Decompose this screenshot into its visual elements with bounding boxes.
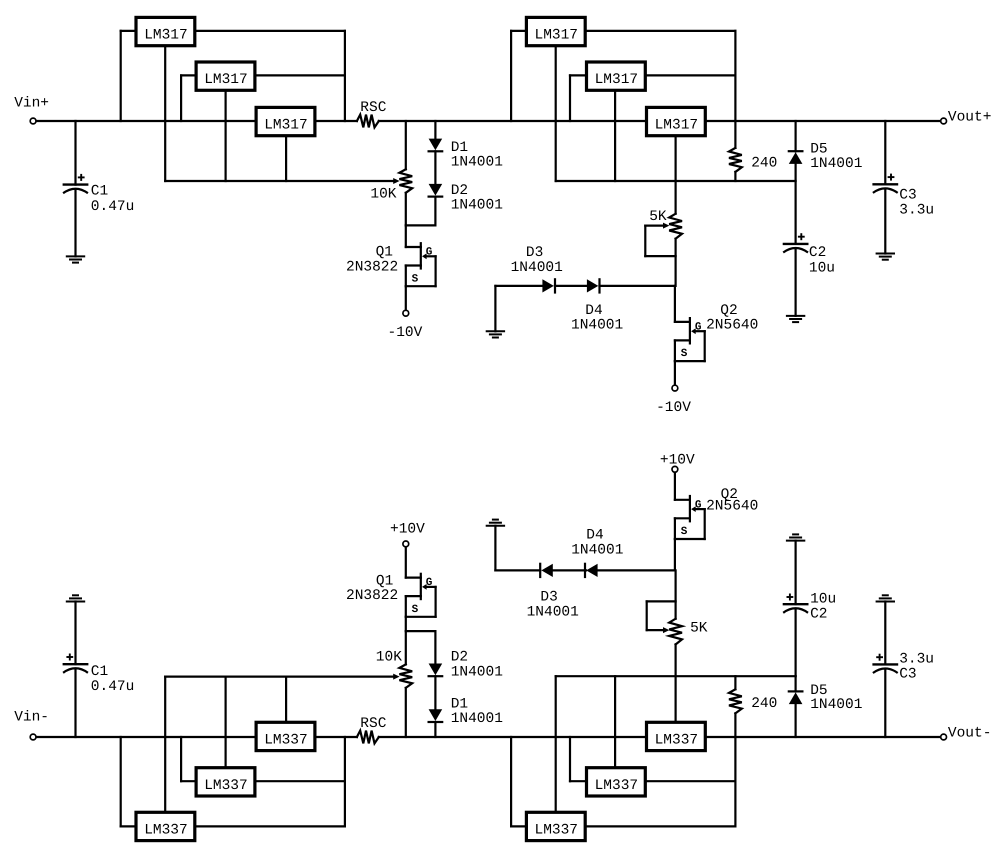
svg-text:D3: D3 bbox=[540, 589, 557, 605]
wire U4 output pin bbox=[586, 31, 735, 121]
wire U10 input pin (left) bbox=[511, 737, 525, 826]
svg-text:1N4001: 1N4001 bbox=[527, 604, 579, 620]
svg-text:1N4001: 1N4001 bbox=[451, 664, 503, 680]
regulator U9 LM337 bbox=[256, 722, 315, 750]
regulator U7 LM337 bbox=[136, 812, 195, 840]
svg-text:LM337: LM337 bbox=[264, 732, 308, 748]
svg-text:C3: C3 bbox=[899, 188, 916, 204]
diode D5 (top) bbox=[789, 151, 803, 164]
wire U7 adj pin bbox=[164, 677, 166, 812]
regulator U1 LM317 bbox=[136, 17, 195, 45]
label Q2 (top) bbox=[706, 303, 758, 333]
svg-text:S: S bbox=[412, 604, 419, 616]
wire D3 to D4 (bottom) bbox=[553, 569, 586, 571]
svg-text:LM337: LM337 bbox=[535, 822, 579, 838]
ground (C2 top) bbox=[786, 316, 805, 322]
wire D4 to Q2 junction bbox=[600, 285, 675, 287]
wire U12 adj pin (to 5K) bbox=[674, 644, 676, 721]
svg-text:C2: C2 bbox=[809, 245, 826, 261]
ground (C2 bottom) bbox=[786, 534, 805, 540]
svg-text:1N4001: 1N4001 bbox=[810, 697, 862, 713]
node Vin+ terminal bbox=[30, 118, 36, 124]
label C3 (bottom) bbox=[899, 651, 934, 682]
svg-text:1N4001: 1N4001 bbox=[451, 155, 503, 171]
node Vin- terminal bbox=[30, 734, 36, 740]
ground (C1 top) bbox=[66, 256, 85, 262]
wire ground to D3 bbox=[495, 286, 542, 331]
ground (D3 bottom) bbox=[486, 520, 505, 526]
label D5 (top) bbox=[810, 141, 862, 172]
wire bus to 240 (bottom) bbox=[734, 676, 736, 689]
wire 240 to ADJ bus bbox=[734, 172, 736, 181]
wire U1 adj pin bbox=[164, 47, 166, 181]
svg-text:LM317: LM317 bbox=[144, 28, 188, 44]
wire D5 to bus / C2 bbox=[794, 164, 796, 244]
svg-text:D2: D2 bbox=[451, 649, 468, 665]
wire D1 to Vin- rail bbox=[434, 722, 436, 737]
resistor 240 (top) bbox=[729, 148, 742, 172]
node -10V terminal (Q1 top) bbox=[403, 310, 409, 316]
wire U10 adj pin bbox=[555, 676, 557, 811]
svg-text:1N4001: 1N4001 bbox=[571, 543, 623, 559]
label Q1 (bottom) bbox=[346, 574, 398, 604]
diode D4 (top) bbox=[587, 279, 600, 292]
svg-text:Vin+: Vin+ bbox=[14, 95, 49, 111]
regulator U12 LM337 bbox=[647, 722, 706, 750]
svg-text:1N4001: 1N4001 bbox=[451, 197, 503, 213]
regulator U4 LM317 bbox=[526, 17, 585, 45]
wire C3 to ground bbox=[884, 190, 886, 254]
potentiometer 5K (top) bbox=[669, 214, 682, 239]
wire U1 output pin bbox=[196, 31, 345, 121]
wire ground to C2 (bottom) bbox=[794, 541, 796, 605]
svg-text:D2: D2 bbox=[451, 183, 468, 199]
svg-text:10K: 10K bbox=[376, 649, 402, 665]
label D3 (bottom) bbox=[527, 589, 579, 620]
wire U8 output pin bbox=[256, 780, 345, 782]
transistor Q1 2N3822 (bottom) bbox=[406, 547, 436, 631]
wire 10K to Q1 junction bbox=[405, 193, 407, 226]
regulator U3 LM317 bbox=[256, 107, 315, 135]
wire Vin- rail (terminal to RSC) bbox=[37, 736, 357, 738]
wire rail to 10K bbox=[405, 121, 407, 169]
label D5 (bottom) bbox=[810, 683, 862, 713]
svg-text:D1: D1 bbox=[451, 140, 468, 156]
label RSC (bottom) bbox=[360, 716, 386, 732]
svg-text:LM337: LM337 bbox=[655, 732, 699, 748]
label Vout- bbox=[948, 726, 992, 742]
svg-text:LM317: LM317 bbox=[264, 117, 308, 133]
wire C1 to Vin- rail bbox=[74, 670, 76, 738]
label 5K (bottom) bbox=[690, 621, 708, 637]
svg-text:2N3822: 2N3822 bbox=[346, 588, 398, 604]
wire U5 input pin (left) bbox=[570, 75, 585, 121]
label C1 (top) bbox=[91, 184, 135, 215]
svg-text:C2: C2 bbox=[810, 607, 827, 623]
diode D1 (top) bbox=[429, 139, 443, 152]
ground (C1 bottom) bbox=[66, 595, 85, 601]
svg-text:240: 240 bbox=[751, 156, 777, 172]
node +10V terminal (Q2 bottom) bbox=[672, 466, 678, 472]
wire rail to D1 bbox=[434, 121, 436, 139]
svg-text:10u: 10u bbox=[810, 592, 836, 608]
wire U2 adj pin bbox=[225, 92, 227, 182]
wire rail to 240 (top) bbox=[734, 121, 736, 148]
svg-text:G: G bbox=[695, 322, 702, 334]
svg-text:D5: D5 bbox=[810, 141, 827, 157]
svg-text:0.47u: 0.47u bbox=[91, 199, 135, 215]
wire D3/D4 junction to 5K (bottom) bbox=[674, 570, 676, 618]
wire 5K wiper loop (bottom) bbox=[647, 601, 676, 633]
svg-text:Vout-: Vout- bbox=[948, 726, 992, 742]
svg-text:1N4001: 1N4001 bbox=[571, 318, 623, 334]
label +10V (Q1 bottom) bbox=[390, 521, 425, 537]
svg-text:RSC: RSC bbox=[360, 716, 386, 732]
label C3 (top) bbox=[899, 188, 934, 219]
transistor Q2 2N5640 (bottom) bbox=[675, 473, 705, 571]
svg-text:5K: 5K bbox=[690, 621, 708, 637]
svg-text:C1: C1 bbox=[91, 664, 108, 680]
wire U4 adj pin bbox=[555, 47, 557, 181]
wire junction to D2 (bottom) bbox=[406, 631, 436, 663]
label +10V (Q2 bottom) bbox=[660, 453, 695, 469]
label Vin+ bbox=[14, 95, 49, 111]
diode D3 (bottom) bbox=[540, 564, 553, 577]
wire D5 to Vout- rail bbox=[794, 704, 796, 737]
capacitor C1 (top) bbox=[63, 174, 89, 193]
svg-text:3.3u: 3.3u bbox=[899, 651, 934, 667]
label Q1 (top) bbox=[346, 244, 398, 275]
capacitor C2 (top) bbox=[783, 233, 809, 252]
wire U11 input pin (left) bbox=[570, 737, 585, 781]
wire Vin+ to C1 bbox=[74, 121, 76, 185]
label -10V (Q2 top) bbox=[656, 400, 691, 416]
wire rail to C3 (top) bbox=[884, 121, 886, 184]
svg-text:D3: D3 bbox=[526, 245, 543, 261]
regulator U10 LM337 bbox=[526, 812, 585, 840]
capacitor C2 (bottom) bbox=[783, 594, 809, 613]
wire ground to D3 (bottom) bbox=[495, 526, 540, 571]
label D2 (top) bbox=[451, 183, 503, 214]
ground (C3 bottom) bbox=[876, 595, 895, 601]
label C1 (bottom) bbox=[91, 664, 135, 695]
svg-text:2N5640: 2N5640 bbox=[706, 317, 758, 333]
resistor RSC (bottom) bbox=[357, 731, 379, 744]
regulator U5 LM317 bbox=[587, 62, 646, 90]
potentiometer 10K (top) bbox=[399, 169, 412, 193]
svg-text:RSC: RSC bbox=[360, 100, 386, 116]
svg-text:S: S bbox=[681, 348, 688, 360]
label D4 (top) bbox=[571, 303, 623, 334]
wire RSC to Vout+ rail bbox=[379, 120, 940, 122]
wire U7 input pin (left) bbox=[121, 737, 135, 826]
svg-text:2N5640: 2N5640 bbox=[706, 499, 758, 515]
capacitor C3 (bottom) bbox=[872, 654, 898, 673]
label Vin- bbox=[14, 710, 49, 726]
svg-text:Vout+: Vout+ bbox=[948, 110, 992, 126]
wire 5K wiper loop (top) bbox=[645, 223, 675, 257]
wire ADJ bus right bottom bbox=[556, 675, 796, 677]
wire ADJ bus left (to 10K wiper) bbox=[165, 178, 399, 184]
svg-text:5K: 5K bbox=[649, 209, 667, 225]
wire U7 output pin bbox=[196, 737, 345, 826]
label C2 (top) bbox=[809, 245, 835, 276]
wire junction to 10K (bottom) bbox=[405, 631, 407, 664]
wire bus to D5 (bottom) bbox=[794, 676, 796, 691]
wire U11 output pin bbox=[646, 780, 735, 782]
label Vout+ bbox=[948, 110, 992, 126]
wire U1 input pin (left) bbox=[121, 31, 135, 121]
label 240 (bottom) bbox=[751, 696, 777, 712]
svg-text:0.47u: 0.47u bbox=[91, 679, 135, 695]
diode D4 (bottom) bbox=[585, 564, 598, 577]
regulator U11 LM337 bbox=[587, 768, 646, 796]
ground (D3 top) bbox=[486, 331, 505, 337]
label -10V (Q1 top) bbox=[388, 325, 423, 341]
regulator U2 LM317 bbox=[196, 62, 255, 90]
wire U8 input pin (left) bbox=[181, 737, 195, 781]
label D1 (top) bbox=[451, 140, 503, 171]
svg-text:S: S bbox=[412, 273, 419, 285]
wire U2 output pin bbox=[256, 74, 345, 76]
svg-text:+10V: +10V bbox=[390, 521, 425, 537]
svg-text:+10V: +10V bbox=[660, 453, 695, 469]
svg-text:LM317: LM317 bbox=[655, 117, 699, 133]
regulator U8 LM337 bbox=[196, 768, 255, 796]
transistor Q2 2N5640 (top) bbox=[675, 286, 705, 385]
label Q2 (bottom) bbox=[706, 487, 758, 515]
svg-text:1N4001: 1N4001 bbox=[810, 156, 862, 172]
svg-text:C1: C1 bbox=[91, 184, 108, 200]
label 5K (top) bbox=[649, 209, 667, 225]
wire U5 adj pin bbox=[614, 92, 616, 182]
wire U2 input pin (left) bbox=[181, 75, 195, 121]
svg-text:G: G bbox=[426, 247, 433, 259]
wire U9 adj pin bbox=[285, 677, 287, 722]
wire C2 to ground bbox=[794, 249, 796, 316]
svg-text:S: S bbox=[681, 526, 688, 538]
wire D1 to D2 bbox=[434, 151, 436, 184]
wire C1 to ground bbox=[74, 190, 76, 256]
wire Vin+ rail (terminal to RSC) bbox=[37, 120, 357, 122]
diode D2 (top) bbox=[429, 184, 443, 197]
label 10K (top) bbox=[370, 187, 396, 203]
capacitor C3 (top) bbox=[872, 174, 898, 193]
svg-text:LM317: LM317 bbox=[204, 72, 248, 88]
wire U8 adj pin bbox=[225, 677, 227, 767]
label D1 (bottom) bbox=[451, 696, 503, 726]
diode D3 (top) bbox=[542, 279, 555, 292]
wire ground to C3 (bottom) bbox=[884, 602, 886, 665]
svg-text:D4: D4 bbox=[585, 303, 602, 319]
label D2 (bottom) bbox=[451, 649, 503, 680]
wire RSC to Vout- rail bbox=[379, 736, 940, 738]
node -10V terminal (Q2 top) bbox=[672, 385, 678, 391]
wire ADJ bus left bottom (to 10K wiper) bbox=[165, 674, 399, 680]
svg-text:10u: 10u bbox=[809, 260, 835, 276]
label 10K (bottom) bbox=[376, 649, 402, 665]
wire U10 output pin bbox=[586, 737, 735, 826]
label RSC (top) bbox=[360, 100, 386, 116]
svg-text:2N3822: 2N3822 bbox=[346, 259, 398, 275]
wire U3 adj pin bbox=[285, 137, 287, 181]
capacitor C1 (bottom) bbox=[63, 654, 89, 673]
svg-text:LM337: LM337 bbox=[144, 822, 188, 838]
svg-text:G: G bbox=[426, 577, 433, 589]
wire D2 to junction bbox=[406, 197, 436, 226]
svg-text:D4: D4 bbox=[586, 528, 603, 544]
wire C2 to ADJ bus (bottom) bbox=[794, 610, 796, 677]
svg-text:Q1: Q1 bbox=[376, 244, 393, 260]
svg-text:Vin-: Vin- bbox=[14, 710, 49, 726]
resistor 240 (bottom) bbox=[729, 689, 742, 713]
potentiometer 5K (bottom) bbox=[669, 619, 682, 645]
svg-text:LM317: LM317 bbox=[535, 28, 579, 44]
svg-text:1N4001: 1N4001 bbox=[451, 711, 503, 727]
svg-text:G: G bbox=[695, 499, 702, 511]
label C2 (bottom) bbox=[810, 592, 836, 623]
wire rail to D5 (top) bbox=[794, 121, 796, 151]
wire D4 to Q2 junction (bottom) bbox=[598, 569, 675, 571]
transistor Q1 2N3822 (top) bbox=[406, 225, 436, 309]
regulator U6 LM317 bbox=[647, 107, 706, 135]
wire C3 to Vout- rail bbox=[884, 670, 886, 737]
label 240 (top) bbox=[751, 156, 777, 172]
wire ADJ bus right bbox=[556, 180, 796, 182]
wire U11 adj pin bbox=[614, 676, 616, 766]
svg-text:3.3u: 3.3u bbox=[899, 203, 934, 219]
diode D5 (bottom) bbox=[789, 691, 803, 704]
svg-text:-10V: -10V bbox=[388, 325, 423, 341]
resistor RSC (top) bbox=[357, 115, 379, 128]
wire D3 to D4 bbox=[555, 285, 587, 287]
svg-text:10K: 10K bbox=[370, 187, 396, 203]
wire D2 to D1 (bottom) bbox=[434, 676, 436, 709]
wire 5K to D3/D4 junction bbox=[674, 239, 676, 286]
wire ground to C1 (bottom) bbox=[74, 602, 76, 665]
diode D1 (bottom) bbox=[429, 709, 443, 722]
wire 10K to Vin- rail bbox=[405, 688, 407, 737]
wire U5 output pin bbox=[646, 74, 735, 76]
wire U4 input pin (left) bbox=[511, 31, 525, 121]
diode D2 (bottom) bbox=[429, 664, 443, 677]
svg-text:LM337: LM337 bbox=[204, 778, 248, 794]
label D4 (bottom) bbox=[571, 528, 623, 559]
node Vout- terminal bbox=[941, 734, 947, 740]
potentiometer 10K (bottom) bbox=[399, 664, 412, 688]
svg-text:LM337: LM337 bbox=[595, 778, 639, 794]
node Vout+ terminal bbox=[941, 118, 947, 124]
wire U6 adj pin (to 5K) bbox=[674, 137, 676, 214]
svg-text:LM317: LM317 bbox=[595, 72, 639, 88]
node +10V terminal (Q1 bottom) bbox=[403, 541, 409, 547]
svg-text:C3: C3 bbox=[899, 667, 916, 683]
svg-text:1N4001: 1N4001 bbox=[511, 260, 563, 276]
svg-text:240: 240 bbox=[751, 696, 777, 712]
label D3 (top) bbox=[511, 245, 563, 276]
ground (C3 top) bbox=[876, 254, 895, 260]
wire 240 to Vout- rail bbox=[734, 713, 736, 737]
svg-text:-10V: -10V bbox=[656, 400, 691, 416]
